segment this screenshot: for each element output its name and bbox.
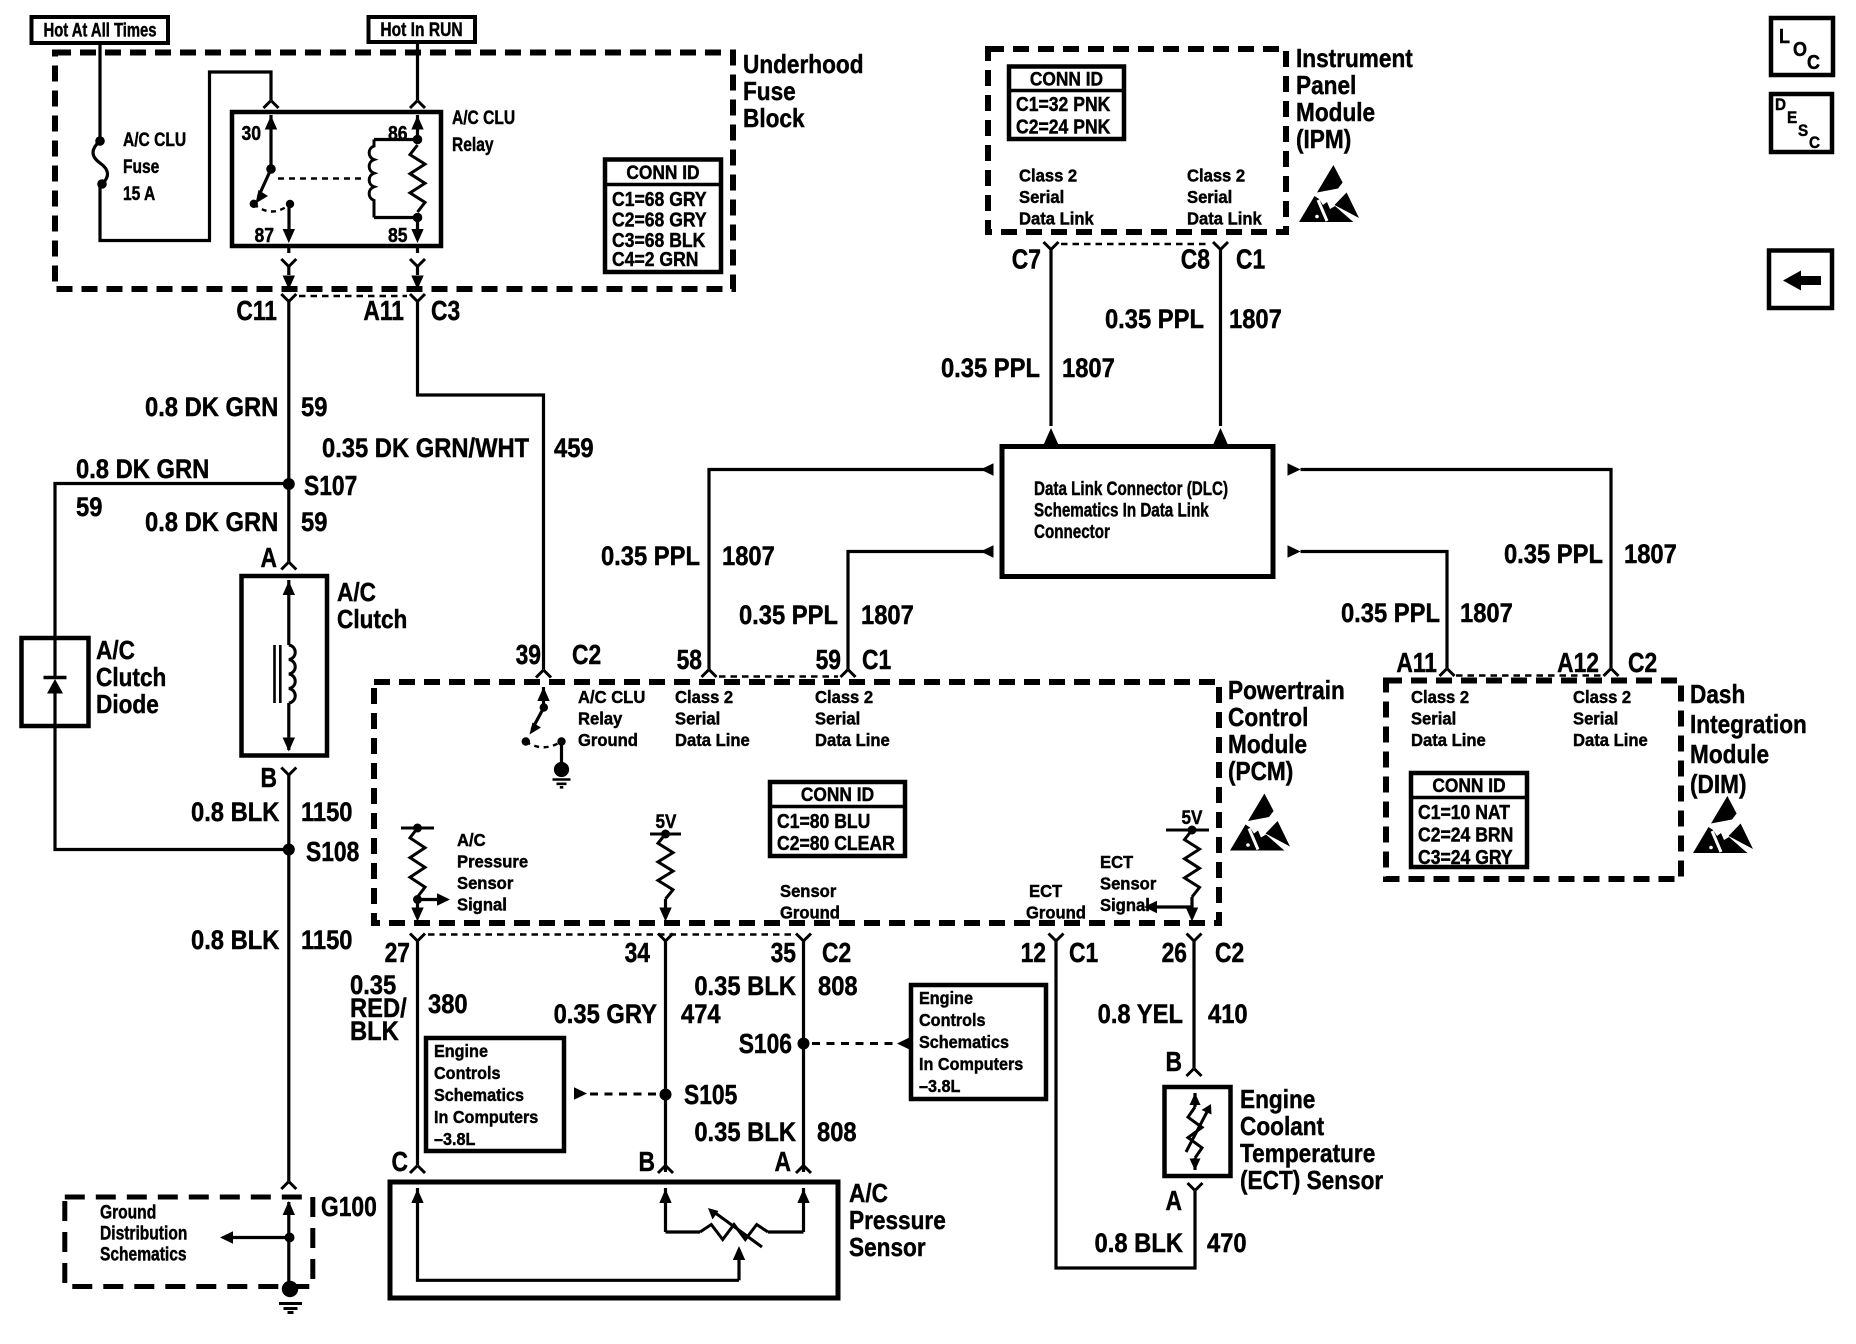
svg-text:C2: C2 xyxy=(1628,648,1657,678)
power label box: Hot In RUN xyxy=(369,17,476,42)
wire 1807 PPL: DLC to PCM pin 59 xyxy=(848,552,994,670)
wire 1807 PPL: C7 to DLC xyxy=(1049,250,1052,427)
svg-text:1807: 1807 xyxy=(1460,599,1513,629)
svg-text:Coolant: Coolant xyxy=(1240,1113,1324,1142)
Underhood Fuse Block dashed enclosure xyxy=(55,53,733,290)
svg-text:C1=10 NAT: C1=10 NAT xyxy=(1418,801,1511,823)
svg-text:1807: 1807 xyxy=(1624,540,1677,570)
svg-text:Fuse: Fuse xyxy=(123,156,160,178)
svg-text:Block: Block xyxy=(743,105,805,134)
svg-text:Schematics: Schematics xyxy=(100,1243,187,1265)
legend box back-arrow xyxy=(1769,251,1832,309)
DLC right arrow lower xyxy=(1288,545,1301,557)
sensor internal: A wire with arrow xyxy=(797,1188,809,1232)
pin label 59 C1 xyxy=(816,645,892,675)
label: Data Link Connector (DLC) Schematics In Data Link Connector xyxy=(1034,477,1228,542)
label: Ground Distribution Schematics xyxy=(100,1201,187,1265)
svg-text:D: D xyxy=(1775,95,1786,114)
ECT thermistor element xyxy=(1186,1093,1212,1171)
svg-text:ECT: ECT xyxy=(1100,853,1134,872)
svg-text:1150: 1150 xyxy=(301,926,353,956)
label 0.8 DK GRN 59 (branch) xyxy=(76,455,209,523)
ESD warning symbol (IPM) xyxy=(1299,165,1359,222)
label 0.35 RED/BLK 380 xyxy=(350,971,468,1047)
svg-text:Data Line: Data Line xyxy=(815,731,890,750)
svg-text:35: 35 xyxy=(771,938,796,968)
relay coil xyxy=(369,140,417,218)
wire 808 BLK: pin 35 to sensor A xyxy=(802,941,805,1172)
connector at PCM pin 35 xyxy=(796,934,811,942)
svg-text:Class 2: Class 2 xyxy=(1411,688,1469,707)
connector at PCM pin 58 xyxy=(702,670,717,678)
svg-text:Signal: Signal xyxy=(457,895,507,914)
label 0.35 BLK 808 (lower) xyxy=(694,1118,856,1148)
label 0.35 PPL 1807 (pin58 wire) xyxy=(601,542,775,572)
svg-text:808: 808 xyxy=(818,972,858,1002)
svg-text:85: 85 xyxy=(388,224,408,246)
label 0.35 PPL 1807 (C7 wire) xyxy=(941,354,1115,384)
wire 59 branch to diode xyxy=(55,484,289,639)
connector at sensor pin B xyxy=(658,1166,673,1174)
sensor potentiometer element xyxy=(666,1208,804,1247)
svg-text:C4=2 GRN: C4=2 GRN xyxy=(612,248,699,270)
svg-text:59: 59 xyxy=(816,645,841,675)
svg-text:Fuse: Fuse xyxy=(743,78,796,107)
svg-text:Sensor: Sensor xyxy=(780,882,837,901)
svg-text:Sensor: Sensor xyxy=(457,874,514,893)
svg-text:A: A xyxy=(261,543,277,573)
svg-text:A/C CLU: A/C CLU xyxy=(578,688,645,707)
svg-text:Relay: Relay xyxy=(578,709,623,728)
svg-text:Relay: Relay xyxy=(452,134,494,156)
svg-text:0.8 DK GRN: 0.8 DK GRN xyxy=(76,455,209,485)
svg-text:C: C xyxy=(1807,52,1820,74)
svg-text:C: C xyxy=(392,1147,408,1177)
svg-text:C3: C3 xyxy=(431,296,460,326)
Powertrain Control Module dashed enclosure xyxy=(374,682,1219,923)
svg-text:A11: A11 xyxy=(363,296,404,326)
svg-text:1807: 1807 xyxy=(1062,354,1115,384)
CONN ID table (IPM) xyxy=(1009,67,1124,140)
connector at G100 xyxy=(281,1182,377,1223)
svg-text:S108: S108 xyxy=(306,837,359,867)
svg-text:A11: A11 xyxy=(1396,648,1437,678)
wire: diode to S108 xyxy=(55,726,285,850)
A/C clutch coil with arrows xyxy=(275,580,296,752)
svg-text:1807: 1807 xyxy=(861,601,914,631)
svg-text:5V: 5V xyxy=(656,811,677,832)
svg-text:0.8 BLK: 0.8 BLK xyxy=(191,798,280,828)
wire 1807 PPL: DLC to PCM pin 58 xyxy=(709,470,994,670)
svg-text:Underhood: Underhood xyxy=(743,51,864,80)
svg-text:Engine: Engine xyxy=(434,1041,488,1061)
svg-text:39: 39 xyxy=(516,640,541,670)
splice S106 xyxy=(739,1029,810,1059)
svg-text:Schematics In Data Link: Schematics In Data Link xyxy=(1034,499,1209,521)
label 0.35 GRY 474 xyxy=(554,1000,721,1030)
svg-text:C2=24 PNK: C2=24 PNK xyxy=(1016,115,1111,137)
svg-text:Ground: Ground xyxy=(780,903,840,922)
label: Class 2 Serial Data Line (DIM right) xyxy=(1573,688,1648,750)
splice S108 xyxy=(283,837,359,867)
label 0.8 BLK 1150 (upper) xyxy=(191,798,353,828)
connector dashed tie 27-35 xyxy=(428,933,794,936)
wire from Hot At All Times to fuse xyxy=(98,43,101,140)
svg-text:B: B xyxy=(639,1147,655,1177)
junction to ground distribution xyxy=(220,1231,295,1243)
relay pin 85 internal wire with arrow xyxy=(411,213,423,243)
connector at clutch pin B xyxy=(281,768,296,776)
svg-text:Diode: Diode xyxy=(96,691,159,720)
splice S105 xyxy=(660,1080,738,1110)
svg-text:Pressure: Pressure xyxy=(849,1207,946,1236)
pin label 39 C2 xyxy=(516,640,602,670)
svg-text:Class 2: Class 2 xyxy=(1573,688,1631,707)
svg-text:Integration: Integration xyxy=(1690,711,1807,740)
wire from fuse to relay pin 30 xyxy=(100,72,271,241)
wire 59 DK GRN: C11 to S107 to A/C clutch xyxy=(287,302,290,562)
PCM 5V reference resistor (pin 34) xyxy=(650,811,681,921)
connector C11 xyxy=(236,294,296,327)
svg-text:A: A xyxy=(1166,1186,1182,1216)
svg-text:Hot In RUN: Hot In RUN xyxy=(380,19,462,41)
svg-text:Data Link: Data Link xyxy=(1187,209,1262,228)
connector at ECT pin A xyxy=(1188,1183,1203,1191)
Data Link Connector box xyxy=(1002,447,1273,577)
svg-text:C2=80 CLEAR: C2=80 CLEAR xyxy=(777,832,895,854)
svg-text:C2: C2 xyxy=(572,640,601,670)
connector at PCM pin 27 xyxy=(410,934,425,942)
label 0.8 BLK 470 xyxy=(1095,1229,1247,1259)
label 0.8 DK GRN 59 (lower) xyxy=(145,508,327,538)
relay pin 87 internal wire with arrow xyxy=(283,204,295,243)
label 0.8 YEL 410 xyxy=(1098,1000,1248,1030)
label: ECT Ground xyxy=(1026,882,1086,923)
svg-text:59: 59 xyxy=(301,393,327,423)
wire 1807 PPL: C8 to DLC xyxy=(1219,250,1222,427)
svg-text:0.8 BLK: 0.8 BLK xyxy=(191,926,280,956)
DLC left arrow lower xyxy=(981,545,994,557)
label: Class 2 Serial Data Line (pin 58) xyxy=(675,688,750,750)
wire 474 GRY: pin 34 to sensor B xyxy=(664,941,667,1172)
svg-text:30: 30 xyxy=(241,122,261,144)
svg-text:C7: C7 xyxy=(1012,245,1041,275)
svg-text:26: 26 xyxy=(1162,938,1187,968)
svg-text:0.35 PPL: 0.35 PPL xyxy=(941,354,1040,384)
connector at clutch pin A xyxy=(281,562,296,570)
svg-text:1807: 1807 xyxy=(722,542,775,572)
CONN ID table (Underhood Fuse Block) xyxy=(605,160,721,273)
svg-text:Pressure: Pressure xyxy=(457,852,528,871)
svg-text:0.35 PPL: 0.35 PPL xyxy=(1105,305,1204,335)
svg-text:Distribution: Distribution xyxy=(100,1222,187,1244)
svg-text:1807: 1807 xyxy=(1229,305,1282,335)
relay body: A/C CLU Relay xyxy=(232,112,441,246)
svg-text:0.35 DK GRN/WHT: 0.35 DK GRN/WHT xyxy=(322,434,530,464)
PCM relay-ground switch xyxy=(522,687,566,762)
connector at PCM pin 34 xyxy=(658,934,673,942)
connector dashed tie C7-C8 xyxy=(1061,243,1210,246)
label 0.35 PPL 1807 (pin59 wire) xyxy=(739,601,914,631)
sensor internal: C wire with arrow xyxy=(411,1188,739,1280)
svg-text:59: 59 xyxy=(76,493,102,523)
wire 410 YEL: PCM pin 26 to ECT pin B xyxy=(1192,941,1195,1068)
svg-text:C11: C11 xyxy=(236,296,277,326)
svg-text:Ground: Ground xyxy=(100,1201,156,1223)
svg-text:Panel: Panel xyxy=(1296,72,1356,101)
svg-text:(IPM): (IPM) xyxy=(1296,126,1351,155)
svg-text:C1: C1 xyxy=(1236,245,1265,275)
relay 87 exit connector pair xyxy=(281,246,296,290)
wire 1807 PPL: DLC to DIM A11 xyxy=(1301,552,1448,669)
label: Instrument Panel Module (IPM) xyxy=(1296,45,1413,155)
connector dashed tie C11-A11 xyxy=(299,295,407,298)
label: Class 2 Serial Data Line (DIM left) xyxy=(1411,688,1486,750)
svg-text:B: B xyxy=(261,763,277,793)
A/C Clutch Diode body xyxy=(22,638,89,726)
ground symbol (PCM relay ground) xyxy=(553,762,571,787)
svg-text:808: 808 xyxy=(817,1118,857,1148)
svg-text:C3=24 GRY: C3=24 GRY xyxy=(1418,846,1513,868)
svg-text:Serial: Serial xyxy=(1187,188,1232,207)
connector dashed tie 58-59 xyxy=(719,675,838,678)
svg-text:Data Line: Data Line xyxy=(675,731,750,750)
Engine Controls Schematics note box (right) xyxy=(911,985,1046,1099)
svg-text:C1: C1 xyxy=(1069,938,1098,968)
svg-text:S: S xyxy=(1798,121,1808,140)
DLC left arrow upper xyxy=(981,463,994,475)
diode symbol xyxy=(44,638,67,726)
connector at PCM pin 59 xyxy=(841,670,856,678)
PCM A/C pressure pull-up resistor xyxy=(401,824,450,922)
ECT sensor body xyxy=(1165,1087,1231,1176)
svg-text:Module: Module xyxy=(1228,731,1307,760)
DLC top-in arrow (from C7) xyxy=(1043,428,1059,446)
svg-text:C1: C1 xyxy=(862,645,891,675)
DLC top-in arrow (from C8) xyxy=(1213,428,1229,446)
label: Engine Coolant Temperature (ECT) Sensor xyxy=(1240,1086,1384,1196)
svg-text:Data Link: Data Link xyxy=(1019,209,1094,228)
svg-text:L: L xyxy=(1779,26,1790,48)
relay pin 86 internal wire with arrow xyxy=(411,115,423,144)
relay pin 30 internal wire with arrow xyxy=(265,115,277,174)
svg-text:CONN ID: CONN ID xyxy=(1432,774,1505,796)
svg-text:C1=32 PNK: C1=32 PNK xyxy=(1016,93,1111,115)
svg-text:–3.8L: –3.8L xyxy=(919,1076,960,1096)
svg-text:Serial: Serial xyxy=(675,709,720,728)
ESD warning symbol (DIM) xyxy=(1693,796,1753,853)
connector at relay pin 86 xyxy=(410,101,425,109)
svg-text:87: 87 xyxy=(254,224,274,246)
pin label A12 C2 (DIM) xyxy=(1557,648,1657,678)
svg-text:A: A xyxy=(775,1147,791,1177)
svg-text:410: 410 xyxy=(1208,1000,1248,1030)
svg-text:(PCM): (PCM) xyxy=(1228,758,1293,787)
relay switch travel dashed arc xyxy=(254,204,290,212)
svg-text:0.35 GRY: 0.35 GRY xyxy=(554,1000,657,1030)
label: A/C CLU Relay Ground xyxy=(578,688,645,750)
connector at PCM pin 12 xyxy=(1049,934,1064,942)
svg-text:Serial: Serial xyxy=(1573,709,1618,728)
svg-text:E: E xyxy=(1787,108,1797,127)
svg-text:CONN ID: CONN ID xyxy=(1030,68,1103,90)
label 0.35 BLK 808 (upper) xyxy=(694,972,857,1002)
svg-text:0.8 BLK: 0.8 BLK xyxy=(1095,1229,1184,1259)
Ground Distribution Schematics dashed box xyxy=(65,1197,313,1287)
svg-text:34: 34 xyxy=(625,938,650,968)
svg-text:A/C: A/C xyxy=(849,1180,888,1209)
label: Class 2 Serial Data Link (IPM left) xyxy=(1019,166,1094,228)
svg-text:S107: S107 xyxy=(304,471,357,501)
label: Class 2 Serial Data Link (IPM right) xyxy=(1187,166,1262,228)
dashed reference link to S105 xyxy=(574,1087,658,1099)
svg-text:Data Line: Data Line xyxy=(1411,731,1486,750)
svg-text:CONN ID: CONN ID xyxy=(801,783,874,805)
connector C8 C1 xyxy=(1181,242,1265,275)
svg-text:In Computers: In Computers xyxy=(434,1107,538,1127)
svg-text:12: 12 xyxy=(1021,938,1046,968)
ground symbol G100 xyxy=(279,1281,302,1313)
svg-text:(ECT) Sensor: (ECT) Sensor xyxy=(1240,1167,1384,1196)
svg-text:0.35 PPL: 0.35 PPL xyxy=(1504,540,1603,570)
svg-text:86: 86 xyxy=(388,122,408,144)
Dash Integration Module dashed enclosure xyxy=(1386,681,1681,880)
label 0.8 BLK 1150 (lower) xyxy=(191,926,353,956)
svg-text:C2: C2 xyxy=(1215,938,1244,968)
svg-text:0.35 PPL: 0.35 PPL xyxy=(1341,599,1440,629)
svg-text:380: 380 xyxy=(428,990,468,1020)
label: A/C CLU Fuse 15 A xyxy=(123,129,186,205)
svg-text:Controls: Controls xyxy=(919,1010,986,1030)
connector at PCM pin 26 xyxy=(1187,934,1202,942)
svg-text:15 A: 15 A xyxy=(123,183,156,205)
svg-text:B: B xyxy=(1166,1047,1182,1077)
svg-text:C2=24 BRN: C2=24 BRN xyxy=(1418,823,1513,845)
Engine Controls Schematics note box (left) xyxy=(426,1038,564,1151)
svg-text:BLK: BLK xyxy=(350,1017,399,1047)
ESD warning symbol (PCM) xyxy=(1230,794,1290,851)
wire 1807 PPL: DLC to DIM A12 xyxy=(1301,470,1612,669)
label: Dash Integration Module (DIM) xyxy=(1690,681,1807,800)
wire from Hot In RUN to relay pin 86 xyxy=(416,42,419,100)
CONN ID table (DIM) xyxy=(1411,773,1527,868)
svg-text:5V: 5V xyxy=(1182,807,1203,828)
svg-text:Connector: Connector xyxy=(1034,520,1110,542)
A/C Pressure Sensor body xyxy=(390,1182,838,1298)
connector at DIM pin A11 xyxy=(1440,669,1455,677)
svg-text:Module: Module xyxy=(1690,741,1769,770)
label: ECT Sensor Signal xyxy=(1100,853,1157,915)
wire 1150 BLK: clutch B to S108 xyxy=(287,775,290,1181)
svg-text:Hot At All Times: Hot At All Times xyxy=(44,20,157,41)
connector at relay pin 30 xyxy=(264,101,279,109)
svg-text:470: 470 xyxy=(1207,1229,1247,1259)
sensor wiper arrow xyxy=(733,1246,745,1280)
label 0.35 PPL 1807 (C8 wire) xyxy=(1105,305,1282,335)
svg-text:Clutch: Clutch xyxy=(96,664,166,693)
pin label 12 C1 xyxy=(1021,938,1099,968)
svg-text:(DIM): (DIM) xyxy=(1690,771,1747,800)
legend box LOC xyxy=(1771,18,1833,75)
svg-text:Controls: Controls xyxy=(434,1063,501,1083)
svg-text:Class 2: Class 2 xyxy=(815,688,873,707)
svg-text:A/C: A/C xyxy=(337,579,376,608)
svg-text:1150: 1150 xyxy=(301,798,353,828)
Instrument Panel Module dashed enclosure xyxy=(988,49,1286,232)
pin label 35 C2 xyxy=(771,938,852,968)
svg-text:G100: G100 xyxy=(321,1192,377,1222)
svg-text:C1=80 BLU: C1=80 BLU xyxy=(777,810,870,832)
relay 85 exit connector pair xyxy=(410,246,425,290)
PCM 5V reference resistor (pin 26) xyxy=(1144,807,1209,921)
wire 380 RED/BLK: pin 27 to sensor C xyxy=(416,941,419,1165)
label: A/C CLU Relay xyxy=(452,107,515,156)
svg-text:Instrument: Instrument xyxy=(1296,45,1413,74)
svg-text:Serial: Serial xyxy=(1019,188,1064,207)
relay pin labels 30 86 87 85 xyxy=(241,122,407,246)
splice S107 xyxy=(283,471,358,501)
svg-text:–3.8L: –3.8L xyxy=(434,1129,475,1149)
svg-text:Sensor: Sensor xyxy=(849,1234,926,1263)
connector at PCM pin 39 xyxy=(536,670,551,678)
connector A11 C3 xyxy=(363,294,460,327)
svg-text:S106: S106 xyxy=(739,1029,792,1059)
wire 459 DK GRN/WHT: A11 to PCM pin 39 xyxy=(418,302,544,670)
svg-text:459: 459 xyxy=(554,434,594,464)
DLC right arrow upper xyxy=(1288,463,1301,475)
sensor internal: B wire with arrow xyxy=(659,1188,671,1232)
legend box DESC xyxy=(1771,94,1832,152)
dashed reference link to S106 xyxy=(812,1037,910,1049)
svg-text:ECT: ECT xyxy=(1029,882,1063,901)
svg-text:0.8 DK GRN: 0.8 DK GRN xyxy=(145,393,278,423)
svg-text:59: 59 xyxy=(301,508,327,538)
svg-text:A/C: A/C xyxy=(457,831,486,850)
svg-text:0.35 PPL: 0.35 PPL xyxy=(601,542,700,572)
svg-text:Serial: Serial xyxy=(815,709,860,728)
fuse F: A/C CLU Fuse 15A xyxy=(93,136,108,189)
label: A/C Pressure Sensor xyxy=(849,1180,946,1263)
wire: PCM pin 12 to ECT pin A xyxy=(1056,941,1195,1268)
svg-text:0.35 PPL: 0.35 PPL xyxy=(739,601,838,631)
svg-text:474: 474 xyxy=(681,1000,721,1030)
svg-text:Ground: Ground xyxy=(1026,903,1086,922)
label 0.35 PPL 1807 (A11 wire) xyxy=(1341,599,1513,629)
svg-text:Schematics: Schematics xyxy=(919,1032,1009,1052)
svg-text:0.8 DK GRN: 0.8 DK GRN xyxy=(145,508,278,538)
svg-text:A12: A12 xyxy=(1557,648,1599,678)
svg-text:Control: Control xyxy=(1228,704,1308,733)
connector at sensor pin A xyxy=(796,1166,811,1174)
svg-text:C1=68 GRY: C1=68 GRY xyxy=(612,188,707,210)
connector at sensor pin C xyxy=(410,1166,425,1174)
svg-text:O: O xyxy=(1793,39,1807,61)
svg-text:27: 27 xyxy=(385,938,410,968)
svg-text:C2=68 GRY: C2=68 GRY xyxy=(612,208,707,230)
svg-text:Signal: Signal xyxy=(1100,896,1150,915)
svg-text:CONN ID: CONN ID xyxy=(626,161,699,183)
svg-text:Data Line: Data Line xyxy=(1573,731,1648,750)
svg-text:Dash: Dash xyxy=(1690,681,1745,710)
svg-text:Module: Module xyxy=(1296,99,1375,128)
relay switch blade (30 to 87) xyxy=(250,169,271,208)
G100 internal wire with arrow xyxy=(283,1201,295,1282)
svg-text:C8: C8 xyxy=(1181,245,1210,275)
svg-text:A/C CLU: A/C CLU xyxy=(452,107,515,129)
relay coil suppression resistor xyxy=(410,145,425,212)
svg-text:Temperature: Temperature xyxy=(1240,1140,1375,1169)
svg-text:Engine: Engine xyxy=(919,988,973,1008)
